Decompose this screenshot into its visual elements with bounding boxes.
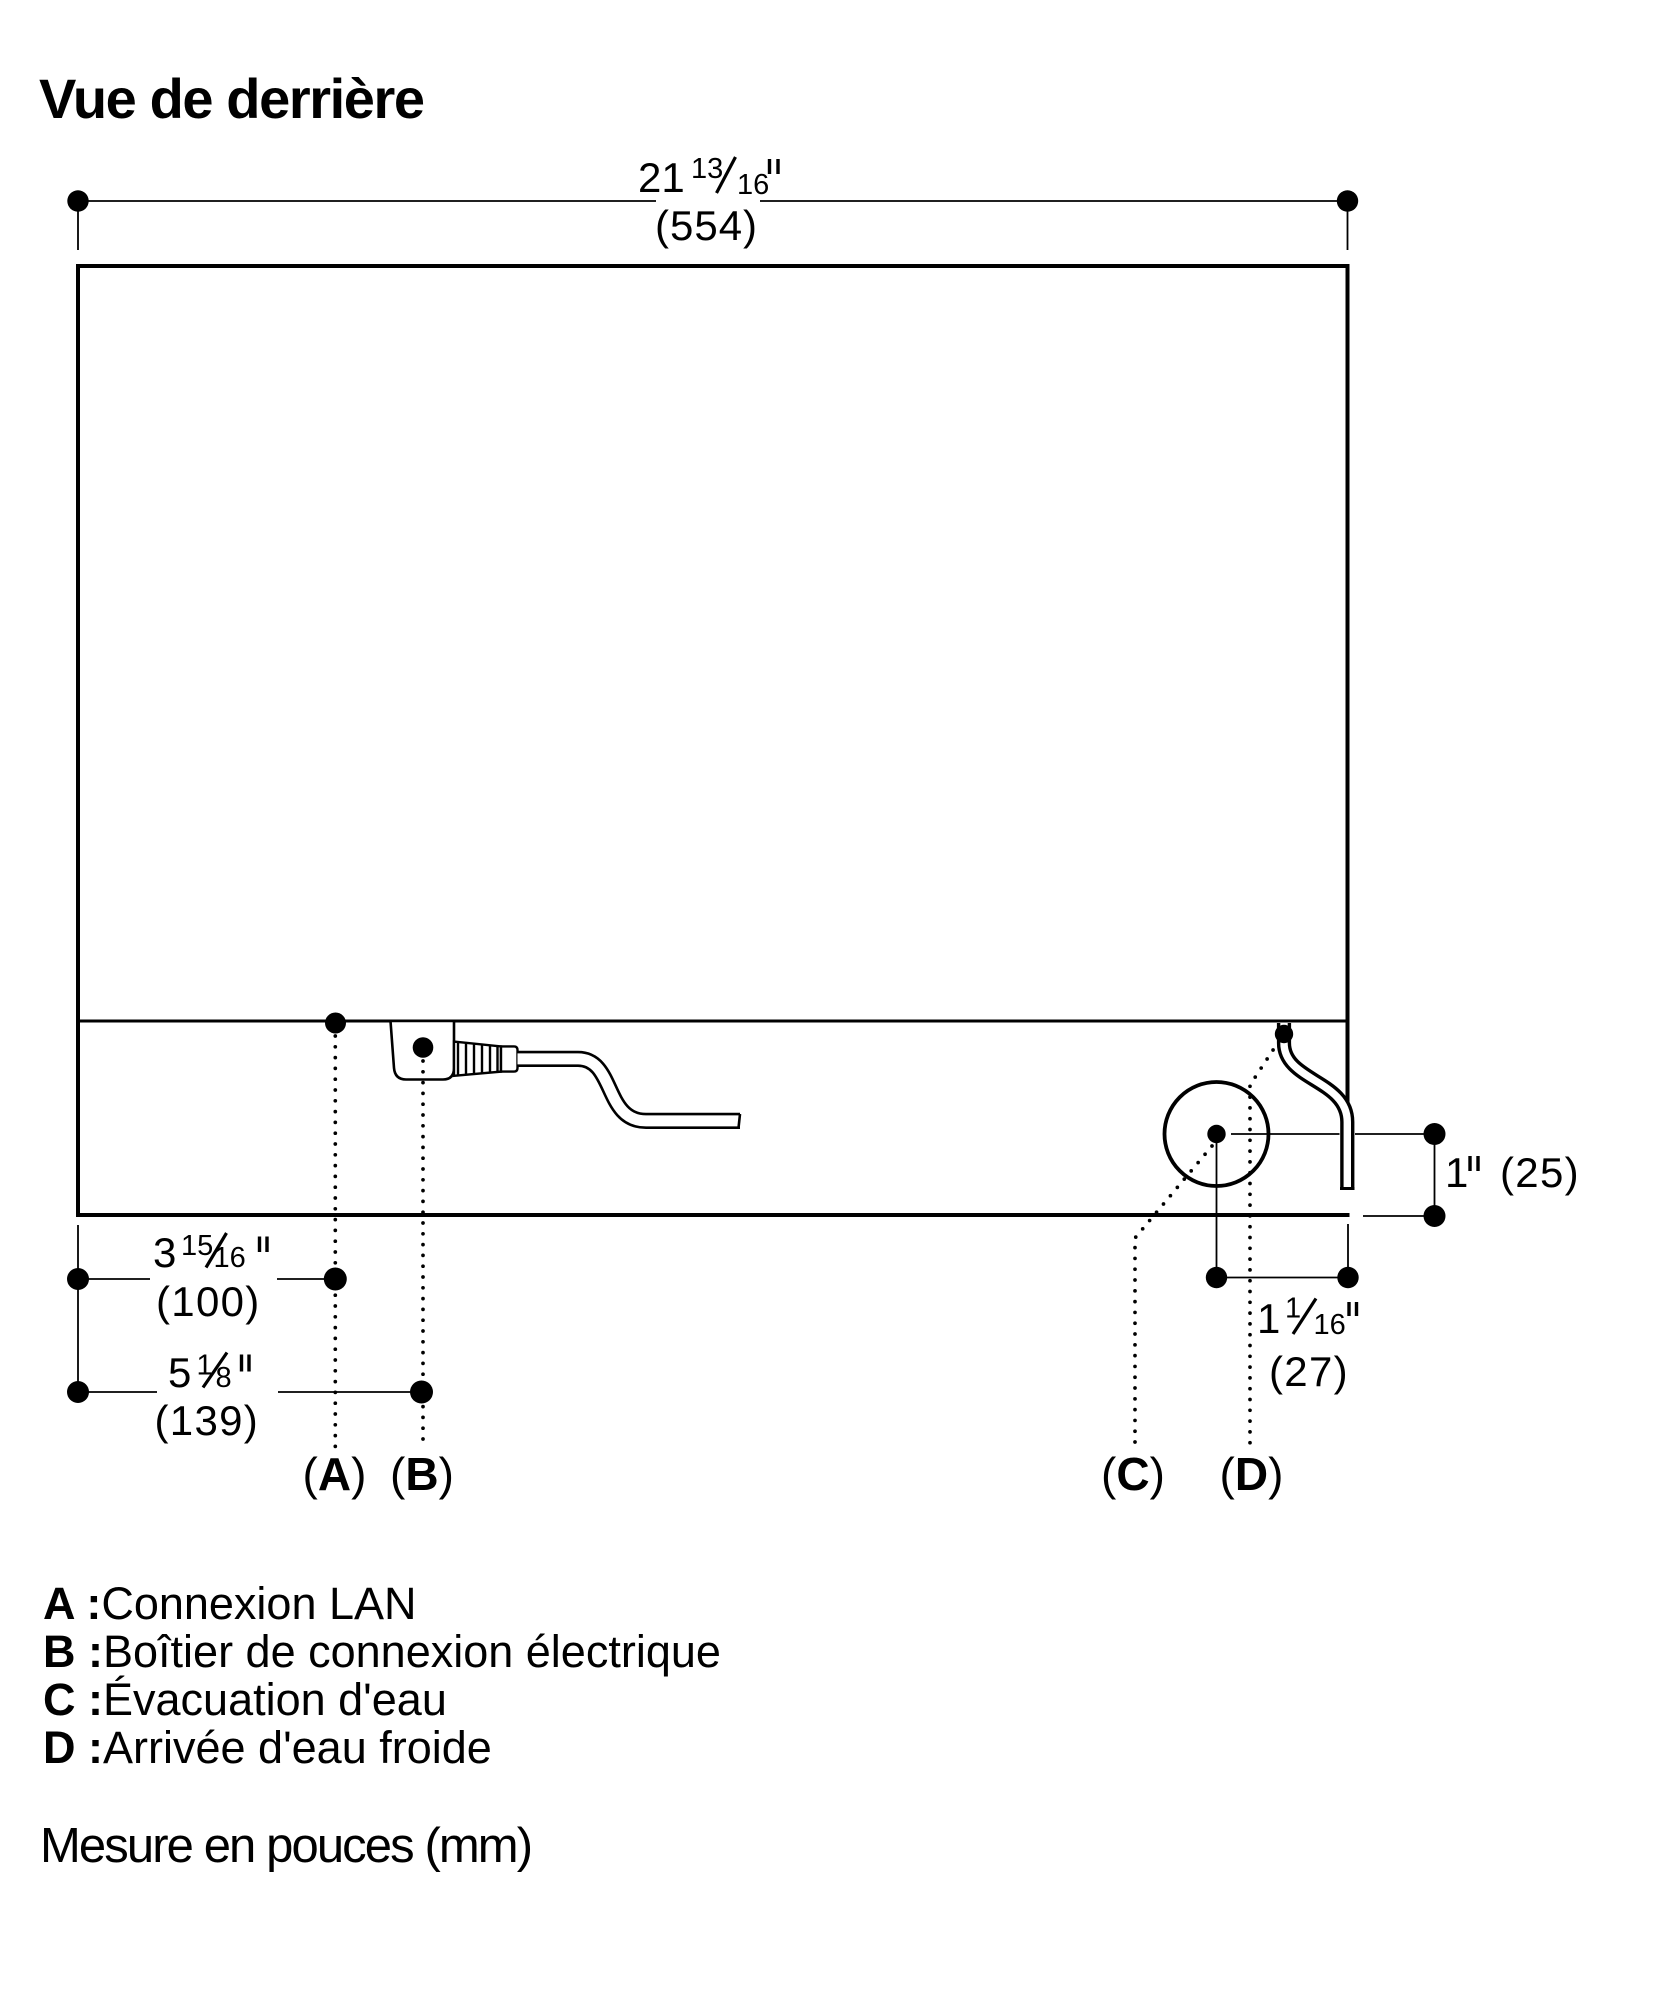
svg-text:(B): (B) — [390, 1448, 454, 1500]
svg-text:1: 1 — [1285, 1293, 1301, 1325]
strain relief collar — [501, 1046, 518, 1071]
svg-text:21: 21 — [638, 154, 685, 201]
port labels — [303, 1448, 1284, 1500]
svg-text:5: 5 — [168, 1349, 191, 1396]
bottom right 1 1/16 (27) dimension — [1217, 1143, 1349, 1278]
dim 3 15/16 (100) — [78, 1278, 335, 1280]
svg-text:15: 15 — [181, 1230, 213, 1262]
svg-text:16: 16 — [737, 169, 769, 201]
leader A — [333, 1036, 337, 1448]
top dimension endpoint dots — [67, 190, 88, 211]
box B dot — [413, 1037, 434, 1058]
svg-text:(27): (27) — [1269, 1348, 1349, 1395]
svg-text:1: 1 — [1257, 1295, 1280, 1342]
svg-text:1: 1 — [1445, 1149, 1468, 1196]
inner horizontal line — [78, 1019, 1348, 1022]
svg-text:(100): (100) — [156, 1278, 261, 1325]
top width dimension line — [78, 201, 1348, 250]
svg-text:Vue de derrière: Vue de derrière — [39, 67, 424, 130]
svg-text:(A): (A) — [303, 1448, 367, 1500]
dim text 21 13/16" (554) — [638, 153, 769, 249]
legend — [43, 1578, 721, 1773]
svg-text:16: 16 — [1314, 1309, 1346, 1341]
svg-text:(D): (D) — [1220, 1448, 1284, 1500]
leader B — [421, 1061, 425, 1448]
leader D — [1250, 1041, 1279, 1448]
svg-text:(C): (C) — [1101, 1448, 1165, 1500]
node A dot on inner line — [325, 1013, 346, 1034]
appliance body rectangle (right edge stops at pipe) — [78, 266, 1350, 1215]
pipe D top dot — [1275, 1025, 1293, 1043]
leader C — [1135, 1146, 1212, 1448]
svg-text:(139): (139) — [155, 1397, 260, 1444]
svg-text:C :Évacuation d'eau: C :Évacuation d'eau — [43, 1674, 447, 1725]
svg-text:(25): (25) — [1500, 1149, 1580, 1196]
svg-text:(554): (554) — [655, 202, 758, 249]
svg-text:3: 3 — [153, 1229, 176, 1276]
connection box B — [391, 1021, 455, 1080]
water drain circle C — [1165, 1082, 1269, 1186]
svg-text:D :Arrivée d'eau froide: D :Arrivée d'eau froide — [43, 1722, 492, 1773]
power cable — [518, 1059, 741, 1121]
svg-text:A :Connexion LAN: A :Connexion LAN — [43, 1578, 417, 1629]
dim 5 1/8 (139) — [78, 1391, 422, 1393]
dotted leader lines — [335, 1036, 1279, 1448]
strain relief ribs — [454, 1042, 501, 1076]
svg-text:Mesure en pouces (mm): Mesure en pouces (mm) — [40, 1819, 531, 1873]
svg-text:B :Boîtier de connexion électr: B :Boîtier de connexion électrique — [43, 1626, 721, 1677]
cold water pipe D — [1284, 1023, 1347, 1189]
svg-text:13: 13 — [691, 153, 723, 185]
right 1"(25) dimension — [1231, 1134, 1435, 1216]
left bottom dimensions — [77, 1225, 79, 1392]
